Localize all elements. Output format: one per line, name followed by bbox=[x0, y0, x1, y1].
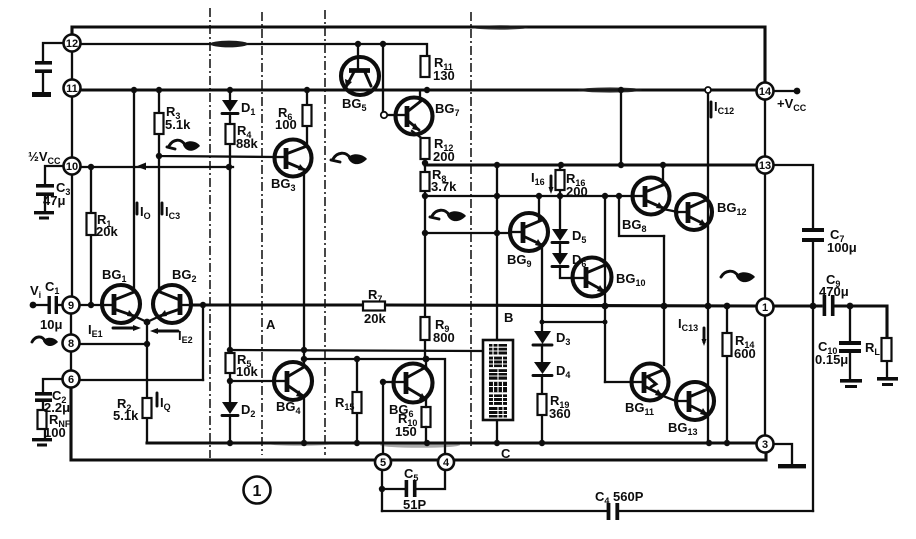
svg-text:6: 6 bbox=[68, 374, 74, 386]
svg-text:20k: 20k bbox=[364, 311, 386, 326]
svg-text:5.1k: 5.1k bbox=[113, 408, 139, 423]
svg-text:4: 4 bbox=[443, 457, 450, 469]
svg-text:51P: 51P bbox=[403, 497, 426, 512]
svg-text:10μ: 10μ bbox=[40, 317, 62, 332]
svg-text:800: 800 bbox=[433, 330, 455, 345]
svg-text:130: 130 bbox=[433, 68, 455, 83]
svg-text:100μ: 100μ bbox=[827, 240, 857, 255]
svg-text:C4 560P: C4 560P bbox=[595, 489, 644, 506]
svg-text:5.1k: 5.1k bbox=[165, 117, 191, 132]
svg-text:8: 8 bbox=[68, 338, 74, 350]
svg-text:88k: 88k bbox=[236, 136, 258, 151]
svg-text:1: 1 bbox=[253, 483, 262, 500]
svg-text:470μ: 470μ bbox=[819, 284, 849, 299]
svg-text:20k: 20k bbox=[96, 224, 118, 239]
svg-text:150: 150 bbox=[395, 424, 417, 439]
svg-text:14: 14 bbox=[759, 86, 772, 98]
svg-text:13: 13 bbox=[759, 160, 771, 172]
svg-text:11: 11 bbox=[66, 83, 78, 95]
svg-text:2.2μ: 2.2μ bbox=[44, 400, 70, 415]
svg-text:200: 200 bbox=[433, 149, 455, 164]
svg-text:10k: 10k bbox=[236, 364, 258, 379]
svg-text:100: 100 bbox=[44, 425, 66, 440]
svg-text:C: C bbox=[501, 446, 511, 461]
svg-text:A: A bbox=[266, 317, 276, 332]
svg-text:0.15μ: 0.15μ bbox=[815, 352, 848, 367]
svg-text:9: 9 bbox=[68, 300, 74, 312]
svg-text:100: 100 bbox=[275, 117, 297, 132]
svg-text:3.7k: 3.7k bbox=[431, 179, 457, 194]
svg-text:360: 360 bbox=[549, 406, 571, 421]
svg-text:600: 600 bbox=[734, 346, 756, 361]
svg-text:47μ: 47μ bbox=[43, 193, 65, 208]
svg-text:12: 12 bbox=[66, 38, 78, 50]
svg-text:1: 1 bbox=[762, 302, 768, 314]
svg-text:200: 200 bbox=[566, 184, 588, 199]
svg-text:5: 5 bbox=[380, 457, 386, 469]
svg-text:B: B bbox=[504, 310, 513, 325]
svg-text:3: 3 bbox=[762, 439, 768, 451]
svg-text:10: 10 bbox=[66, 161, 78, 173]
